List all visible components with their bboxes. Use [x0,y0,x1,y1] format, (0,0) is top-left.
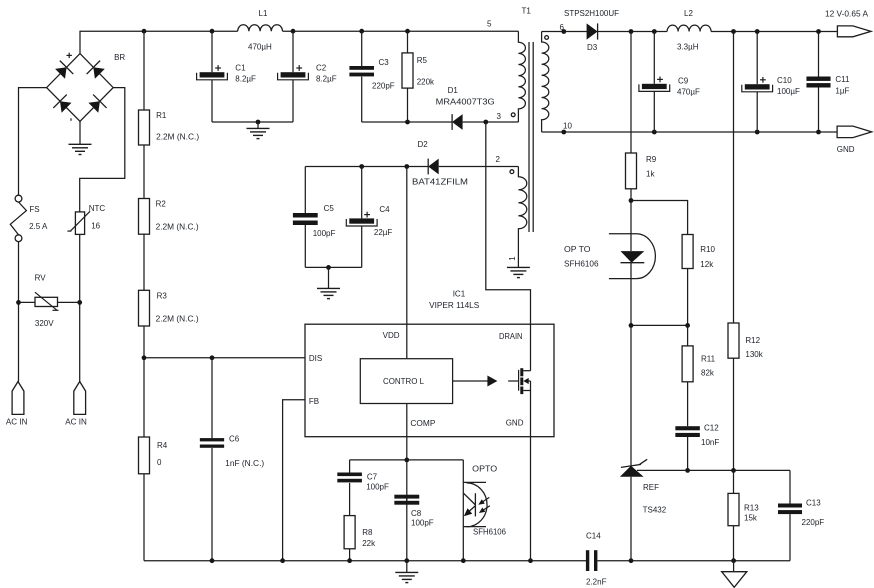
svg-text:R13: R13 [744,504,759,513]
svg-text:VIPER 114LS: VIPER 114LS [429,301,479,310]
optocoupler transistor side SFH6106 [463,465,506,537]
svg-text:R11: R11 [701,355,716,364]
wire R10 bottom / R11 node [629,269,690,346]
svg-text:100pF: 100pF [411,519,434,528]
wire R4 bottom to primary ground rail [143,474,145,561]
svg-text:NTC: NTC [89,204,106,213]
capacitor C7 100pF [337,473,389,492]
svg-text:R10: R10 [700,245,715,254]
capacitor C2 8.2uF [278,64,337,84]
svg-text:C13: C13 [806,498,821,507]
inductor L2 3.3uH [667,9,711,51]
capacitor C10 100uF [742,76,800,96]
wire C3 branch [361,31,363,122]
svg-text:L2: L2 [684,9,693,18]
svg-text:SFH6106: SFH6106 [473,528,507,537]
wire C13 branch [789,470,791,560]
svg-text:220pF: 220pF [372,82,395,91]
ground symbol at C1/C2 [247,128,270,138]
resistor R8 22k [344,516,376,549]
wire bridge right AC leg to NTC [80,88,125,382]
transformer T1 secondary phase dot [545,36,549,40]
resistor R1 2.2M [139,110,200,145]
capacitor C1 8.2uF [197,64,256,84]
svg-text:L1: L1 [259,9,268,18]
svg-text:130k: 130k [745,350,763,359]
wire T1 pin 6 to D3 anode [542,29,587,34]
svg-text:COMP: COMP [410,419,435,428]
wire C10 branch [756,32,758,133]
wire REF net (divider midpoint) [637,468,790,473]
svg-text:BAT41ZFILM: BAT41ZFILM [412,177,468,186]
svg-text:0: 0 [157,458,162,467]
svg-text:2.2M (N.C.): 2.2M (N.C.) [156,314,199,323]
capacitor C11 1uF [806,75,850,96]
resistor R5 220k [402,53,435,88]
svg-text:C11: C11 [835,75,850,84]
wire C8 branch [406,495,408,505]
optocoupler LED side SFH6106 [564,234,655,279]
ground symbol at C5/C4 [317,288,340,298]
transistor Q1 power MOSFET inside IC1 [508,324,530,437]
wire R13 branch [733,470,735,560]
svg-text:R1: R1 [156,111,167,120]
svg-text:15k: 15k [744,514,758,523]
resistor R10 12k [682,235,715,269]
ground symbol (open triangle) at R13 [722,561,747,588]
wire R1-R2-R3 dropper column [143,31,145,358]
wire C2 branch [292,31,294,122]
junction nodes on varistor RV line [16,300,82,305]
T1 pin 5 label [487,20,492,29]
transformer T1 secondary winding [542,32,549,133]
svg-text:R12: R12 [745,336,760,345]
wire COMP node horizontal (C7/C8/opto collector) [350,459,464,461]
IC U1 controller IC1 VIPER 114LS [305,290,554,437]
svg-text:DRAIN: DRAIN [499,332,523,341]
svg-text:D3: D3 [587,43,598,52]
svg-text:C6: C6 [229,435,240,444]
svg-text:C7: C7 [367,473,378,482]
svg-text:10: 10 [563,122,572,131]
label T1 [522,7,532,16]
shunt regulator TS432 [620,459,667,514]
svg-text:C8: C8 [411,509,422,518]
svg-text:100µF: 100µF [777,87,800,96]
capacitor C6 1nF [200,435,265,469]
ground symbol at T1 pin 1 [507,267,530,277]
ground symbol at COMP/C8 [395,561,418,583]
svg-text:1: 1 [508,256,517,261]
wire R9 feed from rectified node [630,32,632,154]
svg-text:82k: 82k [701,369,715,378]
svg-text:C14: C14 [586,532,601,541]
wire C11 branch [818,32,820,133]
wire secondary ground rail (bottom right) [598,560,791,562]
svg-text:TS432: TS432 [643,505,667,514]
wire VDD vertical into IC1 [406,167,408,325]
wire optocoupler transistor branch [462,460,464,561]
svg-text:FS: FS [29,205,39,214]
svg-text:REF: REF [643,483,659,492]
svg-text:CONTRO L: CONTRO L [383,377,425,386]
terminal AC IN (right) [65,382,87,427]
IC1 internal CONTROL block [360,324,452,437]
wire C4 branch [361,167,363,268]
svg-text:DIS: DIS [309,354,322,363]
svg-text:R2: R2 [156,200,167,209]
svg-text:C12: C12 [704,424,719,433]
terminal GND output [837,126,872,154]
svg-text:C3: C3 [379,58,390,67]
resistor R9 1k [626,153,657,189]
svg-text:R4: R4 [157,441,168,450]
capacitor C3 220pF [349,58,394,91]
svg-text:AC IN: AC IN [6,418,28,427]
svg-text:2.5 A: 2.5 A [29,222,48,231]
svg-text:1nF (N.C.): 1nF (N.C.) [225,459,264,468]
svg-text:C9: C9 [678,77,689,86]
junction nodes on primary ground rail [210,558,533,563]
svg-text:16: 16 [91,221,100,230]
capacitor C12 10nF [675,424,719,448]
capacitor C5 100pF [293,204,336,238]
varistor RV 320V [35,273,59,328]
svg-text:T1: T1 [522,7,532,16]
wire R12 sense from 12V rail [733,32,735,324]
svg-text:320V: 320V [35,319,54,328]
transformer T1 core [529,42,533,232]
svg-text:12k: 12k [700,260,714,269]
svg-text:3: 3 [497,112,502,121]
wire TS432 anode to ground rail [630,477,632,561]
svg-text:470µH: 470µH [248,42,272,51]
svg-text:22µF: 22µF [374,228,393,237]
wire C1 branch [211,31,213,122]
capacitor C4 22uF [346,205,392,237]
wire C6 branch [211,358,213,561]
wire R12 bottom to REF line [733,358,735,470]
terminal 12V-0.65A output [825,10,871,37]
wire opto LED cathode to TS432 cathode [630,263,632,466]
svg-text:12 V-0.65 A: 12 V-0.65 A [825,10,869,19]
resistor R4 0 [139,437,168,474]
svg-text:220k: 220k [417,78,435,87]
resistor R13 15k [728,493,759,525]
svg-text:D1: D1 [448,86,459,95]
wire R11 to C12 [687,382,689,426]
wire FB net (IC1 FB to ground rail) [283,400,305,561]
svg-text:6: 6 [560,23,565,32]
svg-text:C2: C2 [316,64,327,73]
transformer T1 primary phase dot [511,113,515,117]
svg-text:8.2µF: 8.2µF [235,75,256,84]
svg-text:C4: C4 [379,205,390,214]
svg-text:FB: FB [309,397,319,406]
svg-text:1µF: 1µF [835,87,849,96]
junction nodes on secondary ground rail [629,558,736,563]
svg-text:OP TO: OP TO [564,245,591,254]
wire drain net T1 pin3 to IC1 DRAIN [486,122,531,324]
fuse FS 2.5 A [10,195,48,241]
svg-text:VDD: VDD [383,331,400,340]
svg-text:10nF: 10nF [701,438,719,447]
wire D3 cathode to L2 (rectified node) [598,29,668,34]
diode D1 MRA4007T3G [436,86,495,130]
bridge rectifier BR [47,53,126,122]
junction nodes on +DC bus rail [142,29,410,34]
capacitor C14 2.2nF (Y-cap) [586,532,607,587]
svg-text:2: 2 [496,155,501,164]
wire IC1 GND pin to primary ground rail [530,437,532,561]
transformer T1 auxiliary winding [518,167,526,268]
svg-text:R8: R8 [362,528,373,537]
diode D3 STPS2H100UF [564,9,619,52]
svg-text:OPTO: OPTO [472,465,497,474]
resistor R12 130k [728,323,764,359]
svg-text:R9: R9 [646,155,657,164]
svg-text:3.3µH: 3.3µH [677,42,699,51]
svg-text:22k: 22k [362,539,376,548]
wire bridge left AC leg to fuse FS [19,88,47,382]
wire T1 pin 10 output return [542,130,838,135]
svg-text:SFH6106: SFH6106 [564,260,599,269]
T1 pin 2 label [496,155,501,164]
wire +DC bus rail (bridge output, top) [80,31,518,53]
svg-text:RV: RV [35,273,47,282]
ground symbol at bridge minus [69,121,92,154]
svg-text:100pF: 100pF [313,229,336,238]
svg-text:C1: C1 [235,64,246,73]
wire DIS net (R3/R4/C6 to IC1 DIS pin) [142,355,305,437]
svg-text:2.2M (N.C.): 2.2M (N.C.) [156,133,199,142]
svg-text:STPS2H100UF: STPS2H100UF [564,9,619,18]
capacitor C9 470uF [639,77,700,97]
transformer T1 auxiliary phase dot [510,170,514,174]
svg-text:2.2nF: 2.2nF [586,578,607,587]
svg-text:GND: GND [837,145,855,154]
diode D2 BAT41ZFILM [412,140,468,186]
wire primary ground rail (bottom) [144,560,586,562]
svg-text:R3: R3 [157,291,168,300]
resistor R11 82k [682,346,716,382]
resistor R2 2.2M [139,199,199,235]
svg-text:8.2µF: 8.2µF [316,75,337,84]
svg-text:100pF: 100pF [366,483,389,492]
svg-text:5: 5 [487,20,492,29]
wire R9 node to R10 top [631,201,688,235]
svg-text:470µF: 470µF [677,88,700,97]
T1 pin 1 label [508,256,517,261]
svg-text:1k: 1k [646,170,655,179]
IC1 internal gate drive arrow [453,376,498,387]
T1 pin 6 label [560,23,565,32]
svg-text:AC IN: AC IN [65,418,87,427]
wire C9 branch [653,32,655,133]
T1 pin 10 label [563,122,572,131]
wire C5/C4 ground link [305,265,361,288]
wire clamp node to T1 pin 3 (D1 line) [362,120,519,125]
svg-text:D2: D2 [418,140,429,149]
svg-text:220pF: 220pF [802,518,825,527]
wire RV line [19,301,80,303]
wire COMP net vertical [404,437,409,561]
capacitor C13 220pF [778,498,824,527]
wire R9 to opto LED anode node [629,189,634,251]
svg-text:MRA4007T3G: MRA4007T3G [436,98,495,107]
svg-text:C10: C10 [777,76,792,85]
resistor R3 2.2M [139,290,199,326]
svg-text:GND: GND [506,418,524,427]
capacitor C8 100pF [394,495,433,528]
inductor L1 470uH [238,9,283,51]
wire C7-R8 branch [349,460,351,561]
svg-text:BR: BR [114,53,125,62]
wire C12 bottom to REF line [687,436,689,470]
wire C5 branch [304,167,306,268]
wire VDD net (C5/C4/D2 line, aux pin 2) [305,164,518,169]
terminal AC IN (left) [6,382,28,427]
wire R5 branch [407,31,409,122]
thermistor NTC 16 [67,204,105,234]
wire C1/C2 ground link [212,120,293,129]
T1 pin 3 label [497,112,502,121]
wire L2 to 12V output terminal [711,29,837,34]
svg-text:IC1: IC1 [453,290,466,299]
transformer T1 primary winding [518,31,525,122]
svg-text:2.2M (N.C.): 2.2M (N.C.) [156,223,199,232]
svg-text:R5: R5 [417,56,428,65]
svg-text:C5: C5 [324,204,335,213]
